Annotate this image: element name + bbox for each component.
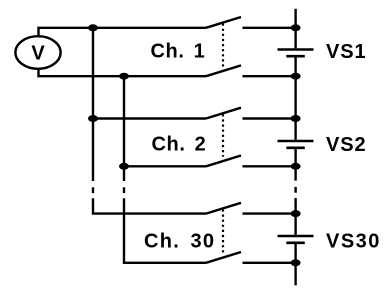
- wire Ch.30 low contact to bus: [243, 262, 296, 264]
- junction node rail4 / bus B: [119, 163, 129, 170]
- wire Ch.1 high contact to bus: [243, 27, 296, 29]
- junction node bus / VS1 plus: [291, 24, 301, 31]
- battery VS2 short plate: [286, 147, 305, 150]
- junction node bus / VS2 minus: [291, 163, 301, 170]
- switch Ch.30 high arm: [206, 203, 241, 214]
- switch Ch.2 low arm: [206, 156, 241, 167]
- battery VS30 short plate: [286, 242, 305, 245]
- wire right bus break to VS30: [294, 198, 296, 235]
- battery VS30 long plate: [278, 235, 314, 237]
- junction node rail2 / bus B: [119, 73, 129, 80]
- wire right bus VS2 down to break: [294, 149, 296, 181]
- gang dotted link Ch.1: [222, 24, 224, 67]
- svg-text:Ch. 2: Ch. 2: [152, 134, 207, 156]
- battery VS1 long plate: [278, 48, 314, 50]
- switch Ch.1 high arm: [206, 17, 241, 28]
- wire left bus B break dash: [123, 187, 125, 193]
- switch Ch.30 low arm: [206, 252, 241, 263]
- wire right bus bottom stub: [294, 244, 296, 285]
- wire Ch.2 high contact to bus: [243, 117, 296, 119]
- wire left bus B lower segment to Ch.30 low: [124, 198, 206, 262]
- wire right bus break dash: [294, 187, 296, 193]
- svg-text:VS2: VS2: [326, 134, 367, 156]
- wire V top to rail 1: [39, 28, 207, 37]
- junction node rail1 / bus A: [88, 24, 98, 31]
- wire Ch.2 low contact to bus: [243, 165, 296, 167]
- junction node bus / VS30 minus: [291, 259, 301, 266]
- voltmeter V1 circle: [15, 36, 60, 69]
- battery VS1 short plate: [286, 55, 305, 58]
- svg-text:VS30: VS30: [326, 230, 381, 252]
- wire rail 4 Ch.2 low: [124, 165, 206, 167]
- battery VS2 long plate: [278, 140, 314, 142]
- wire right bus VS1 to VS2: [294, 57, 296, 139]
- svg-text:Ch. 30: Ch. 30: [144, 230, 215, 252]
- wire Ch.1 low contact to bus: [243, 75, 296, 77]
- svg-text:VS1: VS1: [326, 41, 367, 63]
- svg-text:Ch. 1: Ch. 1: [151, 41, 206, 63]
- gang dotted link Ch.2: [222, 114, 224, 156]
- wire left bus A upper segment: [92, 28, 94, 181]
- wire V bottom to rail 2: [39, 69, 207, 77]
- junction node bus / VS30 plus: [291, 210, 301, 217]
- switch Ch.2 high arm: [206, 108, 241, 119]
- junction node bus / VS1 minus: [291, 73, 301, 80]
- wire left bus A lower segment to Ch.30 high: [93, 198, 206, 213]
- junction node bus / VS2 plus: [291, 115, 301, 122]
- junction node rail3 / bus A: [88, 115, 98, 122]
- wire Ch.30 high contact to bus: [243, 212, 296, 214]
- wire rail 3 Ch.2 high: [93, 117, 206, 119]
- wire left bus B upper segment: [123, 76, 125, 181]
- switch Ch.1 low arm: [206, 65, 241, 76]
- svg-text:V: V: [31, 42, 45, 64]
- wire left bus A break dash: [92, 187, 94, 193]
- gang dotted link Ch.30: [222, 209, 224, 253]
- wire right bus top stub: [294, 9, 296, 49]
